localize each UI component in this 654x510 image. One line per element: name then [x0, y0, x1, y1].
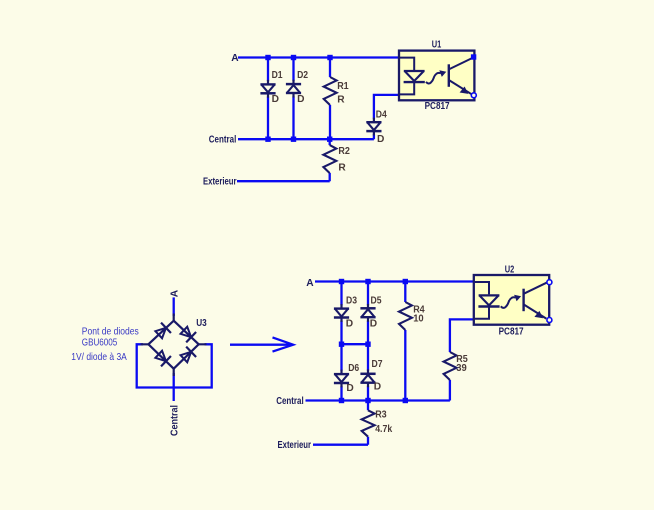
svg-text:R: R [337, 94, 345, 105]
svg-text:U2: U2 [505, 265, 515, 276]
svg-text:A: A [169, 289, 180, 297]
svg-text:D5: D5 [371, 296, 382, 307]
svg-text:39: 39 [456, 363, 467, 374]
svg-text:D4: D4 [376, 110, 387, 121]
svg-text:4.7k: 4.7k [375, 424, 392, 435]
svg-text:R1: R1 [337, 81, 349, 92]
svg-text:Central: Central [170, 405, 181, 436]
svg-text:D7: D7 [372, 359, 383, 370]
svg-text:GBU6005: GBU6005 [82, 337, 118, 348]
svg-text:D3: D3 [346, 296, 357, 307]
svg-text:A: A [231, 53, 239, 64]
svg-text:Exterieur: Exterieur [203, 176, 237, 187]
svg-text:D: D [346, 319, 353, 330]
svg-text:D: D [377, 134, 384, 145]
svg-text:U3: U3 [196, 318, 207, 329]
svg-text:D6: D6 [348, 363, 359, 374]
svg-text:R3: R3 [375, 410, 387, 421]
svg-text:D: D [370, 319, 377, 330]
svg-text:D: D [272, 94, 279, 105]
svg-text:Pont de diodes: Pont de diodes [82, 327, 139, 338]
svg-text:1V/ diode à 3A: 1V/ diode à 3A [71, 352, 127, 363]
svg-text:Central: Central [276, 396, 304, 407]
svg-text:U1: U1 [432, 40, 442, 51]
svg-text:D: D [297, 94, 304, 105]
svg-text:PC817: PC817 [499, 326, 524, 337]
svg-text:D1: D1 [272, 70, 283, 81]
svg-text:Central: Central [209, 134, 237, 145]
svg-text:R2: R2 [338, 146, 350, 157]
svg-text:D: D [346, 383, 353, 394]
svg-text:PC817: PC817 [425, 101, 450, 112]
svg-text:A: A [306, 278, 314, 289]
svg-text:Exterieur: Exterieur [278, 440, 312, 451]
svg-text:D2: D2 [297, 70, 308, 81]
svg-text:D: D [374, 382, 381, 393]
svg-text:10: 10 [413, 314, 424, 325]
svg-text:R: R [338, 163, 346, 174]
